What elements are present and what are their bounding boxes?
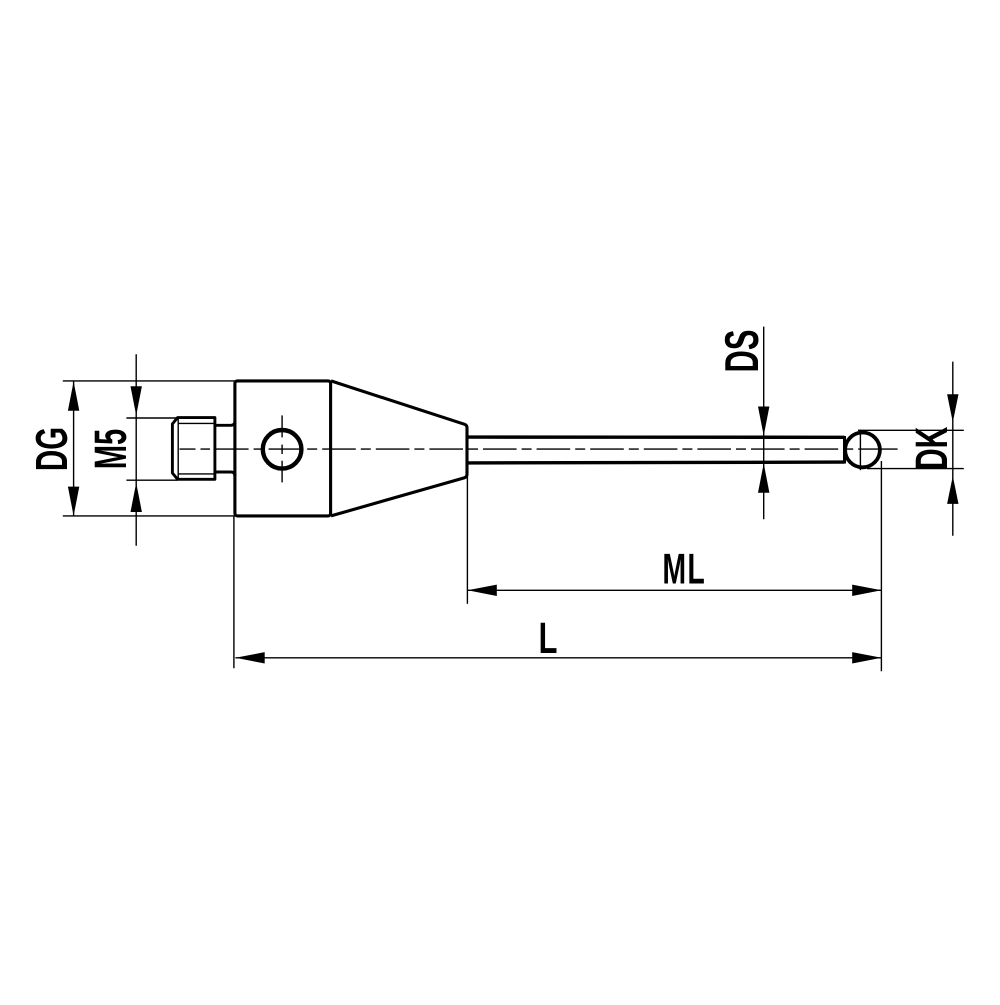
DK arrow down (outside top) — [947, 394, 958, 422]
DK label — [916, 427, 947, 468]
neck top edge with fillet — [215, 421, 235, 425]
M5 extension line top — [126, 417, 177, 419]
ML dimension line — [468, 589, 882, 591]
M5 arrow down (outside top) — [131, 386, 142, 415]
DG extension line top (body top) — [63, 380, 235, 382]
thread M5 minor diameter top line — [178, 422, 214, 424]
L label — [541, 623, 557, 653]
DG arrow down — [68, 487, 79, 516]
cone taper — [331, 381, 467, 516]
ML/L extension line right (ball end) — [880, 461, 882, 671]
L arrow left — [235, 652, 264, 663]
L dimension line — [235, 657, 881, 659]
DS arrow up (to shaft bottom) — [758, 463, 769, 492]
DS dimension line — [763, 327, 765, 520]
M5 arrow up (outside bottom) — [131, 483, 142, 512]
shaft bottom edge — [467, 460, 845, 464]
shaft end cap — [843, 436, 846, 464]
DK extension line bottom — [867, 468, 964, 470]
ML extension line left (cone end) — [466, 477, 468, 604]
ball tip — [845, 433, 880, 468]
shaft top edge — [467, 435, 845, 439]
body cross hole circle — [263, 430, 302, 469]
thread M5 minor diameter bottom line — [178, 473, 214, 475]
DS label — [725, 331, 759, 371]
neck bottom edge with fillet — [215, 472, 235, 476]
DG label — [36, 429, 68, 469]
M5 label — [95, 430, 127, 468]
centerline main axis — [180, 448, 898, 450]
ML arrow left — [468, 585, 497, 596]
thread M5 chamfer line (thin vertical) — [177, 419, 179, 478]
DK extension line top — [858, 429, 964, 431]
DK arrow up (outside bottom) — [947, 476, 958, 504]
DS arrow down (to shaft top) — [758, 407, 769, 436]
thread M5 outer profile — [172, 418, 215, 480]
ML arrow right — [852, 585, 881, 596]
DG dimension line — [73, 382, 75, 516]
hole vertical center mark — [281, 415, 283, 482]
L arrow right — [852, 652, 881, 663]
stylus body rectangle — [235, 381, 331, 516]
DG extension line bottom (body bottom) — [63, 515, 235, 517]
DK dimension line — [952, 362, 954, 536]
ball vertical center mark — [859, 430, 861, 471]
DG arrow up — [68, 382, 79, 411]
L extension line left (body left) — [233, 516, 235, 668]
M5 extension line bottom — [126, 479, 177, 481]
ML label — [664, 554, 704, 584]
M5 dimension line — [135, 354, 137, 545]
